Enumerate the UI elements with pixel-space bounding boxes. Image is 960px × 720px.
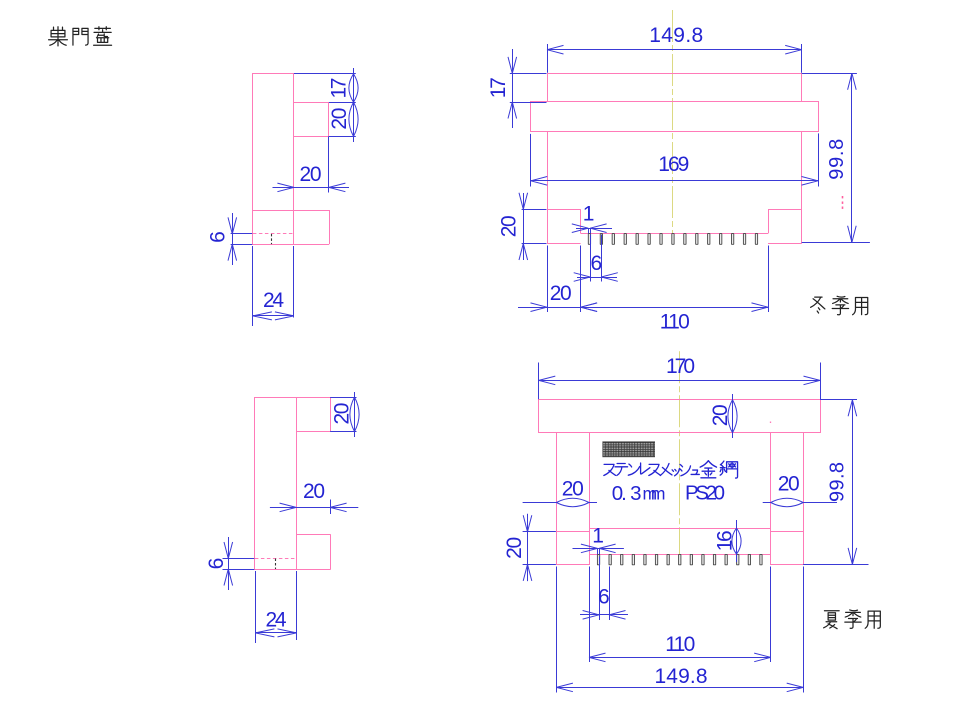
winter middle bar 169 wide: [531, 102, 819, 132]
winter top bar 149.8x17: [548, 74, 802, 102]
dimension 1 extension lines: [588, 228, 590, 233]
svg-text:169: 169: [658, 153, 689, 176]
dimension 99.8 line: [851, 73, 853, 242]
summer side bar cross-section 20x20: [296, 397, 330, 399]
winter slot left wall: [580, 209, 582, 233]
svg-text:17: 17: [328, 78, 351, 99]
summer slot top edge: [589, 554, 771, 556]
summer front view centerline: [679, 351, 681, 556]
summer right column joint line: [771, 531, 804, 533]
svg-text:1: 1: [583, 202, 595, 225]
svg-text:20: 20: [328, 108, 351, 130]
dimension 17 line with outside arrows: [512, 49, 514, 128]
side dimension 20 extension line bottom: [329, 136, 356, 138]
summer side dimension 6 extension lines: [223, 558, 255, 560]
winter side lower block: [253, 210, 329, 212]
svg-text:0.: 0.: [612, 482, 627, 505]
svg-text:149.8: 149.8: [655, 665, 708, 688]
summer dimension 149.8 line: [556, 687, 803, 689]
summer side dimension 6 line with outside arrows: [228, 537, 230, 590]
summer dimension 1 extension lines: [597, 548, 599, 554]
winter side bar cross-section 20x20: [294, 102, 329, 104]
svg-text:6: 6: [590, 252, 602, 275]
svg-text:20: 20: [550, 282, 572, 305]
side dimension line with lens arrows: [353, 68, 355, 142]
title 巣門蓋 (hive entrance cover): [49, 27, 68, 46]
winter side board 24 wide: [253, 74, 294, 245]
dimension 20 left extension lines: [522, 209, 547, 211]
svg-text:20: 20: [778, 473, 800, 496]
label 冬季用 winter use: [811, 297, 825, 313]
winter body bottom right segment: [768, 243, 802, 245]
summer dimension 20 bottom left line with outside arrows: [527, 514, 529, 581]
summer right column: [771, 433, 804, 565]
svg-text:PS20: PS20: [685, 482, 725, 505]
svg-text:6: 6: [207, 231, 230, 243]
summer side lower block: [296, 534, 331, 536]
side dimension 24 extension lines: [252, 246, 254, 326]
winter side hidden slot line: [253, 233, 294, 235]
svg-text:24: 24: [266, 609, 287, 632]
summer dimension 16 lens: [736, 520, 738, 562]
side dimension 6 line with outside arrows: [232, 213, 234, 265]
winter body left edge: [547, 132, 549, 244]
summer dimension 99.8 line: [852, 400, 854, 565]
side dimension 20 mid line with outside arrows: [273, 187, 350, 189]
summer side dimension 20 mid extension line: [330, 500, 332, 515]
summer side dimension 20 lens: [354, 392, 356, 437]
svg-text:149.8: 149.8: [649, 24, 703, 47]
side dimension 17 extension line top: [294, 73, 356, 75]
summer side board 24 wide: [255, 398, 297, 570]
summer dimension 170 extension lines: [538, 363, 540, 400]
svg-text:20: 20: [503, 537, 526, 559]
summer side hidden slot line: [255, 558, 296, 560]
summer top bar 170x20: [539, 400, 821, 433]
summer dimension 99.8 extension lines: [820, 399, 857, 401]
svg-text:6: 6: [205, 558, 228, 570]
dimension 99.8 extension lines: [802, 73, 857, 75]
label 夏季用 summer use: [824, 611, 840, 629]
summer dimension 110 extension lines: [589, 567, 591, 663]
svg-text:170: 170: [666, 355, 695, 378]
dimension 6 extension lines: [590, 235, 592, 282]
dimension 149.8 extension lines: [547, 44, 549, 73]
winter stray pink dots: [842, 196, 844, 198]
summer stray pink dot: [770, 422, 772, 424]
summer slot teeth x15: [597, 554, 599, 564]
side dimension 17 extension line mid: [329, 102, 356, 104]
winter slot teeth x15: [588, 234, 590, 245]
svg-text:1: 1: [592, 525, 604, 548]
dimension 17 extension lines: [510, 73, 547, 75]
summer left column joint line: [556, 531, 589, 533]
winter body bottom left segment: [547, 243, 581, 245]
summer dimension 20 right column lens: [763, 502, 771, 504]
winter slot right wall: [768, 209, 770, 233]
svg-text:110: 110: [660, 310, 690, 333]
summer dimension 20 top bar lens: [732, 394, 734, 438]
summer side dimension 20 mid line with outside arrows: [270, 507, 358, 509]
dimension 1 line with outside arrows: [576, 228, 612, 230]
dimension 110 line: [581, 307, 768, 309]
winter front view centerline: [672, 10, 674, 240]
winter joint line left: [547, 209, 581, 211]
svg-text:16: 16: [714, 530, 737, 551]
svg-text:20: 20: [303, 480, 325, 503]
dimension 20 bottom line with outside arrows: [518, 307, 585, 309]
summer dimension 20 left column lens: [523, 502, 557, 504]
summer side hidden tooth line: [275, 559, 277, 570]
svg-text:99.8: 99.8: [827, 462, 849, 502]
summer dimension 6 extension lines: [599, 557, 601, 621]
summer dimension 20 bottom left extension lines: [523, 531, 556, 533]
svg-text:20: 20: [300, 163, 322, 186]
summer side dimension 24 extension lines: [255, 571, 257, 643]
side dimension 6 extension lines: [231, 233, 253, 235]
svg-text:20: 20: [709, 404, 732, 426]
svg-text:20: 20: [498, 215, 521, 237]
svg-text:17: 17: [487, 77, 510, 98]
winter body right edge: [801, 132, 803, 244]
summer dimension 1 line with outside arrows: [573, 548, 624, 550]
mesh hatch sample: [603, 442, 655, 457]
svg-text:99.8: 99.8: [826, 139, 848, 180]
side dimension 20 mid extension line: [328, 136, 330, 192]
winter joint line right: [768, 209, 802, 211]
summer mesh panel bottom edge: [589, 528, 771, 530]
summer dimension 170 line: [539, 380, 820, 382]
label 金網 wire net: [700, 461, 716, 478]
svg-text:110: 110: [665, 633, 695, 656]
dimension 6 line with outside arrows: [577, 277, 617, 279]
svg-text:mm: mm: [643, 484, 666, 504]
dimension 169 line: [531, 180, 818, 182]
winter side hidden tooth line: [271, 234, 273, 244]
dimension 169 extension lines: [530, 134, 532, 187]
dimension 20 left line with outside arrows: [523, 193, 525, 260]
winter slot top edge: [581, 233, 768, 235]
side dimension 24 line: [253, 315, 294, 317]
label ステンレスメッシュ stainless mesh: [604, 464, 616, 475]
svg-text:3: 3: [630, 482, 641, 505]
svg-text:20: 20: [562, 477, 584, 500]
dimension 149.8 line: [547, 49, 802, 51]
summer dimension 6 line with outside arrows: [580, 614, 628, 616]
summer side dimension 24 line: [255, 632, 296, 634]
dimension 20 bottom extension lines: [547, 246, 549, 313]
summer left column: [557, 433, 590, 565]
svg-text:20: 20: [331, 403, 354, 425]
summer dimension 110 line: [589, 657, 771, 659]
svg-text:6: 6: [598, 585, 610, 608]
summer side dimension 20 extension lines: [330, 397, 356, 399]
svg-text:24: 24: [263, 289, 284, 312]
summer dimension 149.8 extension lines: [556, 567, 558, 693]
